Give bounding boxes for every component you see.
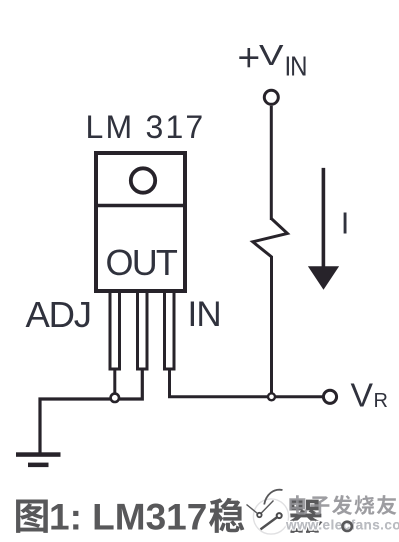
pin 2 OUT lead bbox=[138, 292, 148, 370]
label +VIN bbox=[239, 56, 258, 59]
svg-text:IN: IN bbox=[188, 295, 221, 334]
svg-text:OUT: OUT bbox=[106, 242, 178, 283]
svg-text:LM 317: LM 317 bbox=[86, 109, 206, 145]
pin 1 ADJ lead bbox=[110, 292, 120, 370]
watermark text 电子发烧友 bbox=[289, 495, 396, 515]
node A ADJ junction bbox=[111, 394, 119, 402]
svg-text:IN: IN bbox=[285, 51, 307, 82]
wire bottom left + OUT pin drop bbox=[40, 368, 142, 455]
svg-text:ADJ: ADJ bbox=[26, 294, 91, 335]
svg-text:V: V bbox=[259, 40, 284, 72]
terminal +VIN bbox=[264, 90, 278, 104]
wire IN pin to VR bbox=[170, 368, 323, 397]
package tab divider bbox=[96, 204, 185, 208]
caption 图1: LM317稳压器。 bbox=[16, 497, 322, 538]
terminal VR bbox=[323, 390, 336, 403]
current arrow I bbox=[322, 168, 326, 268]
node B VIN junction bbox=[268, 393, 275, 400]
pin 3 IN lead bbox=[165, 292, 175, 370]
watermark logo bbox=[247, 490, 291, 536]
ground bbox=[16, 452, 61, 457]
svg-text:I: I bbox=[341, 206, 350, 241]
svg-text:V: V bbox=[351, 377, 374, 414]
package mounting hole bbox=[131, 168, 155, 192]
svg-text:1: LM317: 1: LM317 bbox=[49, 497, 207, 538]
wire break symbol bbox=[253, 219, 288, 258]
wire VIN lower bbox=[270, 256, 273, 394]
wire ADJ pin to node bbox=[113, 368, 116, 396]
caption period bbox=[341, 520, 353, 532]
wire VIN upper bbox=[270, 106, 273, 220]
svg-text:R: R bbox=[374, 390, 388, 412]
op-amp U1 LM317 package outline bbox=[96, 153, 185, 291]
